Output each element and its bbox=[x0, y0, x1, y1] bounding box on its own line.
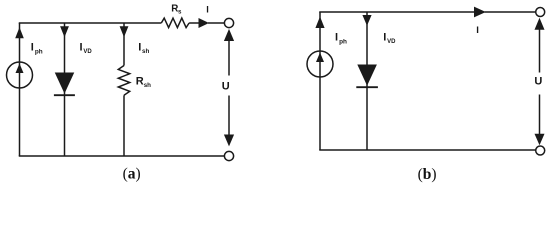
arrow: Iph current direction on left wire (a) bbox=[15, 27, 24, 38]
wire: U arrow shaft lower (b) bbox=[539, 95, 541, 136]
svg-text:I: I bbox=[206, 4, 209, 14]
arrow: U voltage upper head (b) bbox=[535, 18, 545, 30]
svg-text:s: s bbox=[178, 9, 182, 16]
diode VD (b) cathode bar bbox=[356, 86, 378, 88]
wire: top net of circuit (b) from left corner to current arrow bbox=[319, 11, 475, 13]
resistor Rsh (a) zigzag bbox=[118, 66, 129, 96]
wire: diode branch vertical (b) bbox=[366, 12, 368, 150]
diode VD (a) triangle bbox=[55, 73, 75, 94]
svg-text:ph: ph bbox=[339, 38, 347, 45]
wire: left branch vertical (a) bbox=[19, 23, 21, 156]
arrow: U voltage upper head (a) bbox=[224, 29, 234, 41]
wire: U arrow shaft upper (b) bbox=[539, 28, 541, 73]
arrow: inside current source symbol (b) bbox=[316, 53, 324, 63]
svg-text:U: U bbox=[222, 81, 230, 93]
svg-text:I: I bbox=[335, 32, 338, 44]
node: + terminal of circuit (b) bbox=[536, 8, 545, 17]
svg-text:I: I bbox=[138, 42, 141, 54]
arrow: U voltage lower head (b) bbox=[535, 134, 545, 146]
arrow: IVD current direction on diode branch (b) bbox=[362, 15, 371, 26]
arrow: Iph current direction on left wire (b) bbox=[315, 17, 324, 29]
resistor Rs (a) zigzag bbox=[161, 18, 189, 28]
svg-text:I: I bbox=[476, 25, 479, 36]
node: - terminal of circuit (a) bbox=[224, 151, 233, 160]
wire: current arrow to + terminal (a) bbox=[208, 22, 224, 24]
wire: current arrow to + terminal (b) bbox=[485, 11, 536, 13]
svg-text:sh: sh bbox=[144, 82, 151, 89]
current source Iph (a) bbox=[7, 62, 33, 88]
arrow: output current I direction (b) bbox=[474, 7, 486, 18]
arrow: output current I direction (a) bbox=[199, 18, 210, 28]
wire: shunt branch vertical upper (a) bbox=[123, 23, 125, 66]
svg-text:(b): (b) bbox=[418, 166, 437, 183]
diode VD (b) triangle bbox=[357, 65, 377, 86]
diode VD (a) cathode bar bbox=[54, 94, 75, 96]
wire: bottom net of circuit (b) bbox=[319, 149, 535, 151]
svg-text:R: R bbox=[136, 75, 144, 87]
wire: diode branch vertical (a) bbox=[64, 23, 66, 156]
svg-text:VD: VD bbox=[387, 39, 396, 45]
arrow: inside current source symbol (a) bbox=[16, 64, 24, 74]
wire: top net of circuit (a) from left corner to Rs bbox=[19, 22, 162, 24]
svg-text:U: U bbox=[534, 75, 542, 87]
svg-text:VD: VD bbox=[83, 49, 92, 55]
arrow: IVD current direction on diode branch (a) bbox=[60, 26, 69, 37]
wire: bottom net of circuit (a) bbox=[19, 155, 225, 157]
arrow: Ish current direction on shunt branch (a) bbox=[120, 26, 129, 37]
svg-text:ph: ph bbox=[35, 48, 43, 55]
arrow: U voltage lower head (a) bbox=[224, 135, 234, 147]
svg-text:(a): (a) bbox=[123, 165, 141, 182]
wire: Rs to current arrow (a) bbox=[189, 22, 199, 24]
wire: left branch vertical (b) bbox=[319, 12, 321, 150]
wire: shunt branch vertical lower (a) bbox=[123, 95, 125, 156]
node: + terminal of circuit (a) bbox=[224, 18, 233, 27]
node: - terminal of circuit (b) bbox=[536, 146, 545, 155]
svg-text:I: I bbox=[80, 42, 83, 54]
svg-text:I: I bbox=[383, 32, 386, 44]
wire: U arrow shaft lower (a) bbox=[228, 96, 230, 137]
wire: U arrow shaft upper (a) bbox=[228, 39, 230, 76]
current source Iph (b) bbox=[307, 51, 333, 77]
svg-text:I: I bbox=[31, 42, 34, 54]
svg-text:sh: sh bbox=[142, 48, 149, 55]
